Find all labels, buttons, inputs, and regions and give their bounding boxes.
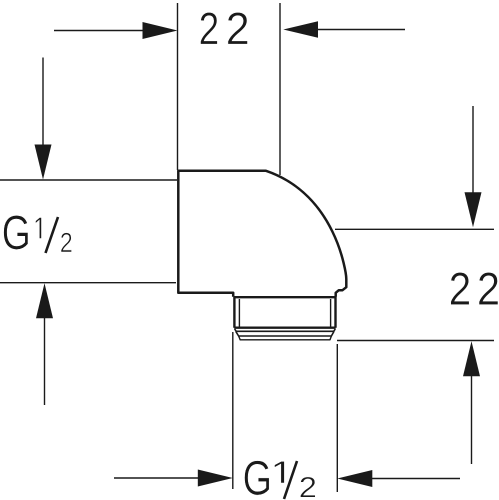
thread bottom line <box>234 327 336 329</box>
left up arrow <box>44 300 46 405</box>
label G1/2 bottom: letter G <box>245 461 270 496</box>
dimension text 22 right, digit 2 (first) <box>451 272 470 304</box>
dimension arrow line top-right <box>300 29 405 31</box>
label G1/2 bottom <box>245 461 316 499</box>
threaded port outer rectangle <box>234 297 335 328</box>
label G1/2 left: fraction slash <box>46 217 59 253</box>
label G1/2 bottom: fraction slash <box>284 461 297 499</box>
extension line top-left (x=177.5) <box>177 3 179 170</box>
left port bottom line <box>0 282 176 284</box>
label G1/2 left: denominator 2 <box>61 233 72 252</box>
extension line top-right (x=280) <box>279 3 281 175</box>
arrowhead top-left pointing right <box>143 22 178 39</box>
dimension text 22 top, digit 2 (second) <box>228 12 248 44</box>
arrowhead top-right pointing left <box>283 21 318 38</box>
thread relief line right <box>330 299 332 328</box>
end cap collar bottom <box>236 331 334 336</box>
right down arrow <box>472 106 474 210</box>
label G1/2 bottom: denominator 2 <box>300 477 315 498</box>
dimension arrow line top-left <box>54 30 160 32</box>
end cap collar top <box>235 329 336 331</box>
body outline of elbow <box>178 171 346 297</box>
end face ring <box>239 336 332 340</box>
left port top line <box>0 179 177 181</box>
dimension text 22 right, digit 2 (second) <box>479 272 498 304</box>
bottom dim arrow left pointing right <box>114 477 215 479</box>
left down arrow <box>42 58 44 161</box>
thread relief line left <box>238 299 240 328</box>
right shoulder extension line <box>335 228 494 230</box>
bottom extension line right (x=337.3) <box>336 344 338 492</box>
bottom dim arrow right pointing left <box>355 478 460 480</box>
bottom extension line left (x=232.8) <box>232 332 234 489</box>
label G1/2 bottom: numerator 1 <box>275 461 285 483</box>
right bottom extension line <box>337 340 494 342</box>
right up arrow <box>471 360 473 464</box>
label G1/2 left: numerator 1 <box>36 218 42 239</box>
label G1/2 left: letter G <box>4 215 28 249</box>
label G1/2 left <box>4 215 72 253</box>
dimension text 22 top, digit 2 (first) <box>201 12 218 44</box>
